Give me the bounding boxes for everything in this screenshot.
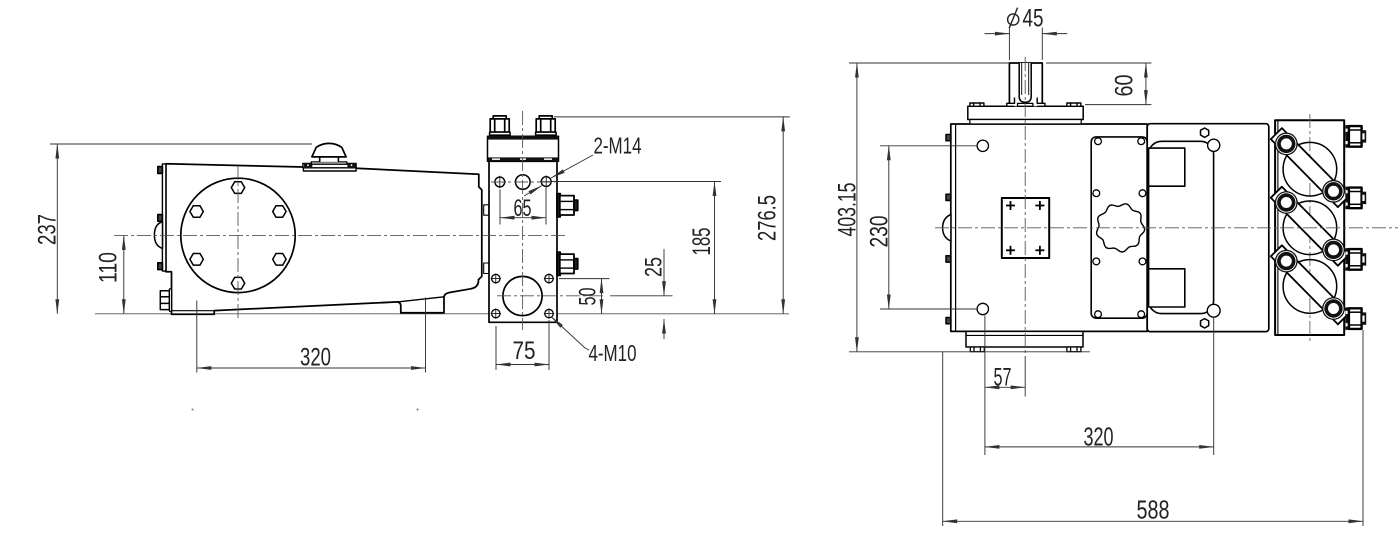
leader 2-M14 upper segment — [551, 155, 593, 178]
drain bolt bottom-left — [160, 289, 171, 311]
valve cover circle middle — [1283, 201, 1337, 255]
dim 403.15 ext top — [849, 62, 1009, 64]
valve cover circle top — [1283, 142, 1337, 196]
spacer section — [1147, 124, 1269, 332]
window frame stadium — [1149, 141, 1214, 313]
svg-text:276.5: 276.5 — [754, 195, 782, 241]
flange circle — [181, 178, 295, 292]
crankcase top view — [951, 124, 1147, 331]
clamp bolt lower-right 2 — [1322, 239, 1345, 262]
M10 hole bottom-left — [491, 308, 501, 318]
centerline shaft axis vertical — [1024, 57, 1026, 356]
side stud bolt 3 — [1345, 248, 1366, 271]
foot pad left — [970, 347, 984, 352]
svg-text:403.15: 403.15 — [834, 183, 862, 237]
dim 320 ext left — [196, 301, 198, 373]
crankcase tab 2 — [946, 194, 951, 200]
svg-text:25: 25 — [641, 257, 668, 277]
crankcase body outline — [166, 164, 482, 314]
flange strip tab middle — [158, 215, 163, 222]
mark dot right — [417, 409, 419, 411]
crankcase tab 3 — [946, 256, 951, 262]
centerline suction port — [497, 295, 606, 297]
plunger rod lower — [484, 263, 489, 274]
dim 50 ext — [559, 278, 610, 280]
leader 4-M10 — [551, 317, 589, 351]
scalloped plug knob — [1097, 204, 1145, 252]
nameplate screw marks — [1006, 201, 1044, 255]
window square bottom — [1149, 269, 1185, 307]
oil filler cap — [303, 143, 356, 171]
foot plate inner line — [966, 334, 1083, 336]
cover screws — [1093, 138, 1146, 318]
centerline main horizontal right view — [935, 227, 1398, 229]
window square top — [1149, 148, 1185, 186]
dim 75 line — [496, 364, 549, 366]
flange strip tab top — [158, 167, 163, 174]
dim 65 ext left — [499, 190, 501, 225]
valve cover circle bottom — [1283, 260, 1337, 314]
dim 237 line — [56, 144, 58, 314]
centerline head hole row — [491, 181, 555, 183]
label dia45 symbol — [1008, 8, 1019, 29]
oval boss on left edge — [154, 222, 162, 249]
mounting hole bottom — [977, 303, 988, 314]
clamp bolt top-left 3 — [1275, 250, 1298, 273]
shaft base flange right — [1037, 98, 1045, 107]
dim 75 ext left — [495, 326, 497, 370]
foot pad right — [1067, 347, 1081, 352]
side stud bolt 4 — [1345, 307, 1366, 330]
shaft base flange left — [1007, 98, 1015, 107]
svg-text:45: 45 — [1023, 5, 1044, 33]
stud nut left — [490, 116, 511, 135]
dim 25 lower line — [663, 319, 665, 339]
valve block end view — [1275, 120, 1344, 335]
dim 57 ext right centerline continuation — [1024, 356, 1026, 397]
cover bolt left — [970, 103, 984, 106]
spacer hole bottom — [1207, 304, 1220, 317]
spacer hex screw bottom — [1201, 319, 1209, 328]
discharge fitting lower — [557, 252, 578, 275]
svg-text:4-M10: 4-M10 — [589, 340, 637, 366]
dim 230 ext top — [880, 145, 977, 147]
centerline head vertical — [522, 111, 524, 330]
mark dot left — [192, 409, 194, 411]
clamp bolt lower-right 1 — [1322, 180, 1345, 203]
dim 110 line — [123, 235, 125, 313]
dim 65 line — [500, 217, 546, 219]
dim 403.15 ext bottom — [849, 351, 1090, 353]
M10 hole bottom-right — [544, 308, 554, 318]
crosshead cover plate — [1091, 137, 1147, 318]
dim 588 ext right — [1362, 330, 1364, 526]
suction port circle — [503, 276, 542, 315]
svg-text:60: 60 — [1111, 75, 1139, 97]
svg-text:75: 75 — [513, 337, 536, 365]
stud nut right — [536, 116, 557, 135]
front flange strip (left edge) — [162, 164, 166, 271]
svg-text:320: 320 — [300, 344, 331, 372]
dim dia45 ext left — [1008, 28, 1010, 61]
flange strip tab bottom — [158, 263, 163, 270]
mounting hole top — [977, 140, 988, 151]
svg-text:57: 57 — [994, 364, 1012, 392]
flange hex bolt top — [231, 182, 244, 194]
valve block centerline — [1309, 114, 1311, 341]
spacer hole top — [1208, 139, 1220, 151]
M14 hole right — [540, 175, 552, 187]
dim 320 ext right — [425, 298, 427, 373]
centerline crank axis left view — [114, 234, 565, 236]
bottom slope line across right foot — [398, 297, 444, 302]
M10 hole top-left — [491, 273, 501, 283]
shaft keyway slot — [1019, 63, 1031, 102]
flange hex bolt lower-left — [190, 254, 203, 266]
dim 320 line — [197, 367, 426, 369]
svg-text:588: 588 — [1137, 495, 1170, 525]
dim 276.5 line — [782, 117, 784, 314]
cover bolt right — [1067, 103, 1081, 106]
clamp bar middle — [1271, 187, 1349, 266]
flange hex bolt lower-right — [273, 254, 286, 266]
dim 403.15 line — [856, 63, 858, 352]
crankcase oval boss — [943, 215, 951, 242]
clamp bar top — [1271, 128, 1349, 207]
dim dia45 ext right — [1041, 28, 1043, 61]
dim 75 ext right — [548, 320, 550, 370]
crankcase tab 1 — [946, 135, 951, 141]
discharge fitting upper — [557, 194, 578, 217]
svg-text:230: 230 — [866, 216, 894, 248]
side stud bolt 1 — [1345, 125, 1366, 148]
M14 hole left — [494, 176, 506, 188]
bearing cover lip — [970, 120, 1081, 125]
discharge flange top band — [488, 136, 559, 139]
dim 230 line — [888, 146, 890, 309]
flange hex bolt upper-right — [273, 206, 286, 218]
drive shaft — [1009, 63, 1042, 106]
valve head block — [489, 161, 557, 322]
keyway inner lines — [1021, 63, 1023, 95]
svg-text:50: 50 — [575, 288, 602, 306]
crankcase flange strip line — [955, 124, 957, 331]
leader 2-M14 lower segment — [524, 186, 542, 197]
dim 57 line — [985, 386, 1025, 388]
centerline flange axis — [237, 166, 239, 319]
nameplate — [1002, 198, 1049, 258]
dim 60 line — [1145, 63, 1147, 105]
dim 237 extension line top — [50, 143, 312, 145]
dim 276.5 ext — [554, 116, 790, 118]
dim 185 line — [714, 182, 716, 314]
svg-text:185: 185 — [688, 228, 716, 256]
dim 230 ext bottom — [880, 308, 977, 310]
side stud bolt 2 — [1345, 187, 1366, 210]
svg-text:2-M14: 2-M14 — [594, 133, 642, 159]
crankcase tab 4 — [946, 318, 951, 324]
left foot plate line — [172, 310, 215, 312]
clamp bar bottom — [1271, 245, 1349, 324]
M10 hole top-right — [544, 273, 554, 283]
bearing cover plate — [968, 106, 1083, 119]
discharge flange plate — [488, 136, 559, 161]
dim 65 ext right — [545, 188, 547, 225]
svg-text:110: 110 — [95, 252, 123, 283]
dim 588 line — [943, 520, 1363, 522]
svg-text:237: 237 — [34, 214, 62, 245]
dim 60 ext bottom — [1085, 104, 1151, 106]
dim 185 ext — [552, 181, 721, 183]
dim 57 ext left — [984, 316, 986, 456]
valve block inner edge line — [1277, 120, 1279, 335]
dim 588 ext left — [942, 352, 944, 526]
discharge flange bottom band — [488, 157, 559, 161]
dim dia45 arrow left — [985, 33, 1010, 35]
dim 25 upper line — [663, 249, 665, 296]
clamp bolt top-left 1 — [1275, 133, 1298, 156]
bottom foot plate — [966, 331, 1083, 347]
svg-text:320: 320 — [1084, 422, 1114, 452]
spacer hex screw top — [1201, 128, 1209, 137]
clamp bolt lower-right 3 — [1322, 297, 1345, 320]
dim dia45 arrow right — [1042, 33, 1067, 35]
shaft base collar — [1018, 103, 1033, 106]
dim 320 line right view — [985, 446, 1214, 448]
flange hex bolt bottom — [231, 277, 244, 289]
dim 25 ext — [610, 295, 673, 297]
dim 50 line — [601, 279, 603, 314]
clamp bolt top-left 2 — [1275, 191, 1298, 214]
gauge port center hole — [516, 175, 531, 190]
dim 320 ext right — [1213, 317, 1215, 455]
dim 60 ext top — [1046, 62, 1151, 64]
flange hex bolt upper-left — [190, 206, 203, 218]
plunger rod upper (gap between body and head) — [484, 205, 489, 215]
baseline (mounting surface) — [95, 313, 789, 315]
